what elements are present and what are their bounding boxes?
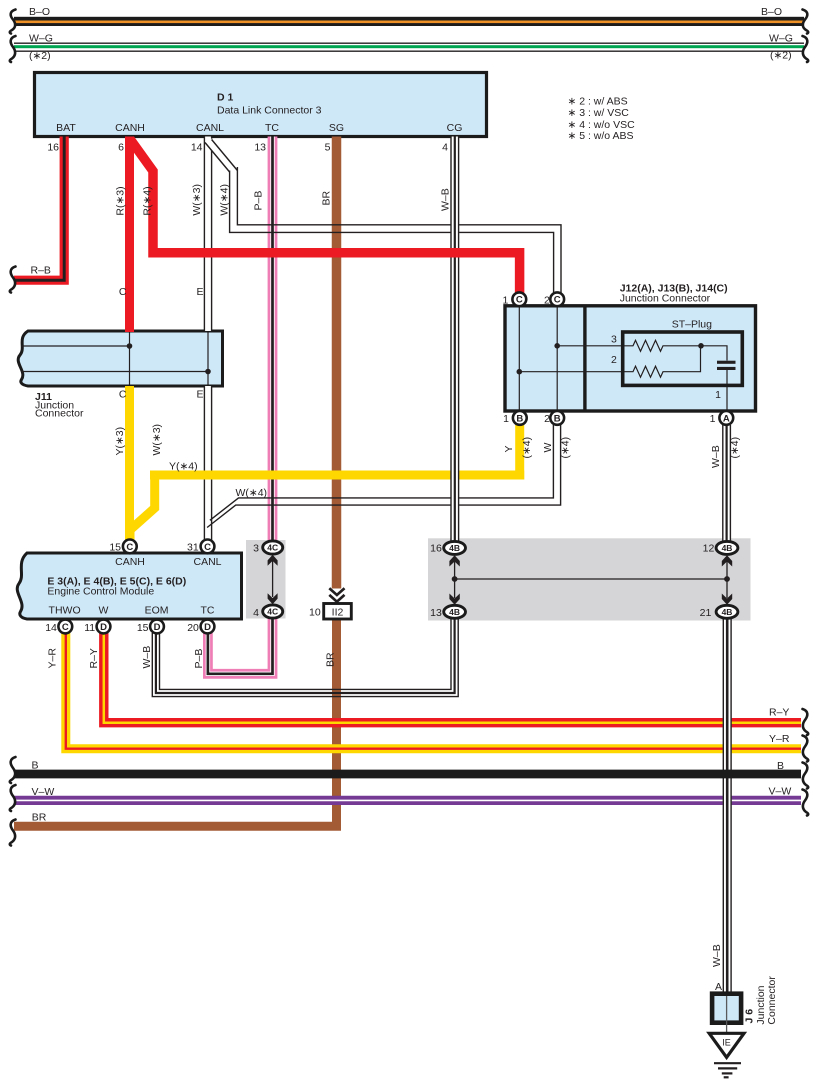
svg-text:E: E [196,389,203,401]
svg-text:20: 20 [187,622,199,634]
svg-text:12: 12 [703,543,715,555]
svg-text:(∗4): (∗4) [559,437,571,459]
svg-text:W–B: W–B [710,445,722,468]
svg-text:Connector: Connector [35,408,84,420]
svg-text:3: 3 [611,334,617,346]
svg-text:R–B: R–B [31,265,51,277]
svg-text:D: D [154,622,161,633]
svg-text:BR: BR [321,190,333,205]
svg-text:Y–R: Y–R [46,648,58,669]
svg-text:CANH: CANH [115,556,145,568]
svg-text:R(∗3): R(∗3) [115,186,127,215]
svg-text:BR: BR [32,811,47,823]
svg-text:4B: 4B [722,543,733,553]
svg-text:P–B: P–B [253,191,265,211]
svg-text:(∗2): (∗2) [770,50,792,62]
svg-text:C: C [119,286,127,298]
svg-text:BAT: BAT [56,122,76,134]
svg-text:CANL: CANL [196,122,224,134]
svg-text:∗ 3 : w/ VSC: ∗ 3 : w/ VSC [568,107,630,119]
svg-text:W: W [542,443,554,453]
svg-text:16: 16 [430,543,442,555]
svg-text:R–Y: R–Y [769,707,789,719]
svg-text:Engine Control Module: Engine Control Module [47,585,154,597]
svg-text:4: 4 [253,607,259,619]
svg-text:ST–Plug: ST–Plug [672,319,712,331]
svg-text:W–B: W–B [711,944,723,967]
svg-text:5: 5 [325,142,331,154]
svg-text:(∗2): (∗2) [29,50,51,62]
svg-text:13: 13 [430,607,442,619]
svg-text:C: C [119,389,127,401]
svg-text:A: A [715,981,722,993]
svg-text:Y(∗4): Y(∗4) [169,461,198,473]
svg-text:1: 1 [503,295,509,307]
svg-text:C: C [126,542,133,553]
svg-text:C: C [554,295,561,306]
svg-text:6: 6 [118,142,124,154]
svg-text:4: 4 [442,142,448,154]
svg-text:Junction Connector: Junction Connector [620,293,711,305]
svg-text:THWO: THWO [49,604,81,616]
svg-text:B: B [32,760,39,772]
svg-text:V–W: V–W [769,786,792,798]
svg-text:1: 1 [503,413,509,425]
svg-text:D: D [204,622,211,633]
svg-text:21: 21 [700,607,712,619]
svg-text:B–O: B–O [761,6,782,18]
svg-text:TC: TC [201,604,215,616]
svg-text:C: C [204,542,211,553]
svg-text:11: 11 [84,622,95,634]
svg-text:B: B [516,413,523,424]
svg-text:SG: SG [329,122,344,134]
svg-text:∗ 2 : w/ ABS: ∗ 2 : w/ ABS [568,95,628,107]
svg-text:(∗4): (∗4) [729,437,741,459]
svg-text:14: 14 [45,622,57,634]
svg-text:A: A [723,413,730,424]
svg-text:2: 2 [611,354,617,366]
svg-text:2: 2 [544,413,550,425]
svg-text:4B: 4B [722,607,733,617]
svg-text:W(∗3): W(∗3) [191,184,203,216]
svg-text:W: W [99,604,109,616]
svg-text:P–B: P–B [193,649,205,669]
svg-text:Y: Y [503,445,515,452]
svg-text:15: 15 [109,542,121,554]
svg-text:16: 16 [47,142,59,154]
svg-text:V–W: V–W [32,786,55,798]
svg-text:4B: 4B [449,543,460,553]
svg-text:D 1: D 1 [217,92,234,104]
svg-text:(∗4): (∗4) [521,437,533,459]
svg-text:W(∗4): W(∗4) [219,184,231,216]
svg-text:Y–R: Y–R [769,733,790,745]
svg-text:TC: TC [265,122,279,134]
svg-text:D: D [100,622,107,633]
svg-text:W(∗4): W(∗4) [236,487,268,499]
svg-text:3: 3 [253,543,259,555]
svg-text:E: E [196,286,203,298]
svg-text:IE: IE [722,1038,731,1048]
svg-text:B–O: B–O [29,6,50,18]
svg-text:1: 1 [710,413,716,425]
svg-text:C: C [516,295,523,306]
svg-text:CANL: CANL [193,556,221,568]
svg-text:∗ 5 : w/o ABS: ∗ 5 : w/o ABS [568,130,634,142]
svg-text:W–G: W–G [29,33,53,45]
svg-text:C: C [62,622,69,633]
svg-text:1: 1 [715,389,721,401]
svg-text:J 6: J 6 [744,1009,756,1024]
svg-text:II2: II2 [332,607,344,619]
svg-text:Data Link Connector 3: Data Link Connector 3 [217,105,322,117]
svg-text:10: 10 [309,607,321,619]
svg-text:Connector: Connector [766,976,778,1025]
svg-text:BR: BR [325,652,337,667]
svg-text:15: 15 [137,622,149,634]
svg-text:R(∗4): R(∗4) [142,186,154,215]
svg-text:4C: 4C [267,543,278,553]
svg-text:CANH: CANH [115,122,145,134]
svg-text:Y(∗3): Y(∗3) [114,427,126,456]
svg-text:14: 14 [191,142,203,154]
svg-text:4C: 4C [267,607,278,617]
svg-text:EOM: EOM [145,604,169,616]
svg-text:W–G: W–G [769,33,793,45]
svg-text:CG: CG [447,122,463,134]
svg-text:13: 13 [254,142,266,154]
svg-text:W–B: W–B [141,646,153,669]
svg-text:B: B [777,760,784,772]
svg-text:4B: 4B [449,607,460,617]
svg-text:R–Y: R–Y [88,648,100,668]
svg-text:B: B [554,413,561,424]
svg-text:2: 2 [544,295,550,307]
svg-text:W(∗3): W(∗3) [151,424,163,456]
svg-text:W–B: W–B [440,188,452,211]
svg-text:31: 31 [187,542,199,554]
